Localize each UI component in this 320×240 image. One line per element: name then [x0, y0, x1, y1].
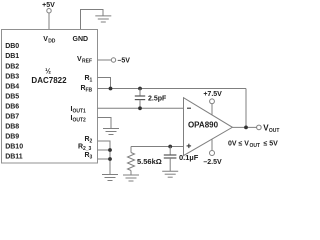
svg-text:≤ 5V: ≤ 5V	[264, 141, 279, 148]
capacitor C1 2.5pF	[135, 89, 167, 109]
wire RFB to feedback	[98, 88, 247, 90]
svg-text:DB7: DB7	[5, 114, 19, 121]
wire noninverting input	[131, 146, 184, 148]
wire op-amp output	[232, 126, 256, 128]
capacitor C2 0.1uF	[164, 147, 199, 172]
node R1/RFB junction	[109, 87, 113, 91]
svg-text:+7.5V: +7.5V	[203, 91, 222, 98]
svg-text:OUT: OUT	[250, 143, 261, 149]
node C1/IOUT1 junction	[138, 106, 142, 110]
node output junction	[244, 126, 248, 130]
pin VREF label	[77, 56, 92, 64]
label output range	[228, 141, 278, 150]
ground (R bus)	[102, 175, 118, 181]
node R2_3 junction	[108, 148, 112, 152]
terminal VOUT	[257, 123, 280, 134]
terminal -5V	[111, 58, 130, 65]
svg-text:2.5pF: 2.5pF	[148, 96, 167, 103]
svg-text:OUT1: OUT1	[73, 109, 87, 115]
ground (resistor)	[123, 175, 139, 181]
pin R3 label	[85, 152, 93, 161]
svg-text:2: 2	[90, 139, 93, 145]
svg-text:OPA890: OPA890	[188, 121, 219, 130]
wire feedback down to output	[245, 89, 247, 128]
resistor R 5.56kOhm	[128, 147, 162, 176]
svg-text:DB9: DB9	[5, 134, 19, 141]
svg-text:DB2: DB2	[5, 63, 19, 70]
wire VREF to -5V terminal	[98, 59, 112, 61]
op-amp U2 OPA890	[184, 98, 233, 156]
svg-text:FB: FB	[86, 88, 93, 94]
wire R3 to ground bus	[98, 158, 111, 160]
pin R1 label	[85, 75, 93, 84]
pin IOUT1 label	[71, 106, 87, 115]
svg-text:0.1µF: 0.1µF	[179, 153, 199, 162]
pin R2_3 label	[78, 144, 92, 153]
pin IOUT2 label	[71, 115, 87, 124]
power +7.5V terminal	[203, 91, 222, 115]
svg-text:5.56kΩ: 5.56kΩ	[137, 157, 162, 166]
node 0.1uF junction	[168, 145, 172, 149]
label 1/2 DAC7822	[31, 68, 67, 86]
svg-text:1: 1	[90, 78, 93, 84]
power -2.5V terminal	[203, 139, 222, 166]
svg-text:DB10: DB10	[5, 144, 23, 151]
svg-text:DB0: DB0	[5, 43, 19, 50]
wire IOUT1 to op-amp inverting input	[98, 107, 184, 109]
svg-text:–5V: –5V	[118, 58, 131, 65]
svg-text:DB4: DB4	[5, 83, 19, 90]
pin VDD label	[43, 36, 56, 45]
svg-text:DB5: DB5	[5, 93, 19, 100]
svg-text:DB1: DB1	[5, 53, 19, 60]
wire GND pin to ground	[81, 10, 104, 31]
svg-text:DB3: DB3	[5, 73, 19, 80]
svg-text:–2.5V: –2.5V	[203, 159, 222, 166]
svg-text:3: 3	[90, 155, 93, 161]
wire IOUT2 to ground	[98, 118, 112, 129]
svg-text:DB11: DB11	[5, 154, 23, 161]
pin R2 label	[85, 136, 93, 145]
pin RFB label	[81, 85, 93, 94]
wire R2_3 to ground bus	[98, 149, 111, 151]
svg-text:0V ≤ V: 0V ≤ V	[228, 141, 249, 148]
DAC U1 DAC7822 box	[2, 30, 98, 164]
svg-text:REF: REF	[82, 59, 92, 65]
node R3 junction	[108, 157, 112, 161]
svg-text:OUT: OUT	[269, 128, 280, 134]
svg-text:GND: GND	[73, 36, 89, 43]
svg-text:½: ½	[45, 68, 51, 76]
wire +5V to VDD pin	[48, 13, 50, 30]
ground (top right)	[95, 16, 111, 22]
ground (0.1uF)	[162, 171, 178, 177]
svg-text:DD: DD	[48, 39, 56, 45]
ground (IOUT2)	[103, 129, 119, 135]
wire R2 to ground bus	[98, 141, 111, 175]
svg-text:OUT2: OUT2	[73, 118, 87, 124]
power +5V terminal	[42, 2, 55, 13]
svg-text:DB6: DB6	[5, 104, 19, 111]
wire R1 to RFB node	[98, 78, 111, 89]
node RFB/C1 junction	[138, 87, 142, 91]
svg-text:DAC7822: DAC7822	[31, 76, 67, 85]
svg-text:DB8: DB8	[5, 124, 19, 131]
svg-text:+5V: +5V	[42, 2, 55, 9]
